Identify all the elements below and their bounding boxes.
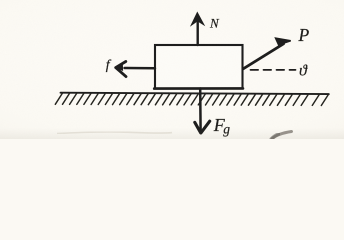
block (box) M — [155, 45, 243, 89]
dashed horizontal reference line — [251, 69, 296, 71]
faint pencil swoosh bottom-right — [272, 132, 292, 139]
friction force arrow f : shaft — [125, 67, 156, 70]
page background — [0, 0, 344, 139]
faint bleed-through underline bottom-left — [57, 132, 172, 134]
applied force arrow P : head — [276, 38, 291, 45]
ground hatching — [55, 93, 328, 105]
scan grain overlay — [0, 0, 1, 1]
applied force arrow P : shaft — [243, 44, 283, 69]
ground surface line — [61, 93, 329, 94]
friction force arrow f : head — [116, 62, 126, 77]
gravity force arrow Fg : shaft — [199, 89, 202, 131]
block bottom edge overdraw — [154, 87, 243, 90]
gravity force arrow Fg : head — [195, 121, 210, 133]
bottom edge shading — [0, 128, 344, 139]
normal force arrow N : shaft — [196, 23, 198, 46]
normal force arrow N : head — [191, 13, 204, 26]
